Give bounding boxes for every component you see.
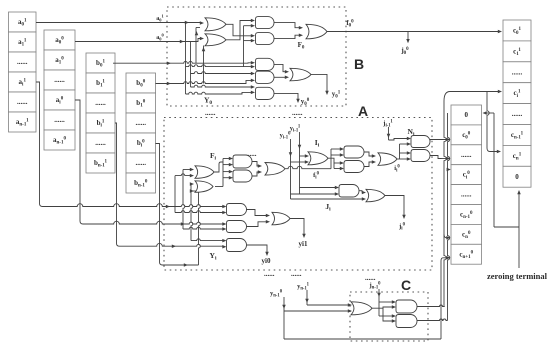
svg-text:......: ......	[54, 116, 65, 124]
riser r1 in A	[174, 176, 176, 213]
svg-text:......: ......	[205, 109, 216, 117]
riser from a_i^0 to bus2	[75, 100, 83, 224]
vertical vC3	[448, 113, 450, 321]
wire N2 out to ci^0	[430, 156, 442, 159]
svg-text:A: A	[358, 103, 368, 119]
feed OR-b.in1	[190, 183, 191, 185]
and-gate A N2	[411, 150, 430, 162]
B feed row AND4.in1	[191, 72, 252, 74]
bus3 horizontal	[120, 243, 167, 246]
and-gate C-AND1	[396, 300, 417, 313]
bus2 horizontal	[83, 221, 166, 224]
and-gate A ANDy1	[227, 204, 247, 216]
svg-text:......: ......	[512, 110, 523, 118]
B vertical a0^0 distribution	[190, 42, 192, 88]
and-gate B-AND4	[256, 71, 275, 83]
OR-I output to vertical 334	[328, 158, 334, 168]
wire y0^1 output	[311, 74, 327, 91]
register stack a1	[9, 12, 37, 32]
section box C	[350, 292, 428, 341]
and-gate A AND-j	[339, 185, 359, 198]
or-gate A OR-a	[195, 166, 214, 179]
B OR1 output crossover to AND2	[226, 24, 252, 36]
svg-text:yi1: yi1	[299, 240, 308, 248]
feed OR-a.in1	[183, 169, 190, 171]
feeds into OR-I	[300, 155, 306, 157]
register column c0 (result 0)	[451, 105, 482, 125]
OR-mi output to N gates	[397, 158, 400, 160]
section box B	[167, 7, 346, 106]
svg-text:......: ......	[136, 159, 147, 167]
feed ANDy1.in2	[175, 211, 223, 213]
svg-text:......: ......	[461, 191, 472, 199]
zeroing branch to second column 0 cell	[494, 226, 519, 228]
riser from b_i^0 to bus4	[156, 144, 163, 266]
B vertical b0^0 rise to OR2	[203, 46, 205, 84]
svg-text:yi0: yi0	[262, 257, 271, 265]
wire F0 output f0^0 to c0^1	[327, 31, 499, 33]
wire N1 out to c0^0	[430, 139, 447, 141]
vertical from bottom wire to c_n+1^0	[441, 258, 447, 339]
svg-text:......: ......	[512, 68, 523, 76]
and-gate A ANDy2	[227, 221, 247, 233]
riser r4 in A	[199, 191, 201, 265]
riser from b_i^1 to bus3	[115, 123, 120, 246]
C OR output distribution	[372, 307, 392, 308]
or-gate B-OR1	[205, 18, 226, 31]
or-gate A OR-y	[272, 212, 290, 225]
wire yi0 output from ANDy3	[247, 245, 268, 252]
and-gate A AND-m1	[344, 146, 364, 158]
m outputs to OR-mi	[364, 152, 372, 156]
or-gate F0	[306, 24, 327, 39]
wire to c_i^1 top	[444, 92, 498, 102]
svg-text:C: C	[401, 277, 411, 293]
svg-text:0: 0	[515, 173, 519, 181]
wire yi1 output	[290, 219, 304, 235]
bus4 bottom segment	[163, 264, 199, 266]
svg-text:......: ......	[264, 270, 275, 278]
bus1 horizontal	[43, 204, 167, 207]
feeds to AND-a AND-b	[223, 158, 229, 160]
A AND outputs to OR-c	[252, 162, 258, 167]
B OR2 output crossover to AND1	[226, 21, 252, 40]
feed ANDy3.in1	[191, 239, 223, 241]
and-gate C-AND2	[396, 315, 417, 328]
bottom long wire	[284, 338, 441, 340]
riser r2 in A	[183, 170, 185, 230]
feed OR-j.in2	[291, 198, 363, 200]
B AND outputs to F0	[274, 23, 299, 28]
j_{n-1}^0 wire into C	[378, 289, 380, 316]
register stack b1	[86, 53, 115, 73]
branch from f wire to c_n^1	[487, 92, 489, 149]
svg-text:......: ......	[95, 139, 106, 147]
and-gate B-AND1	[256, 17, 275, 29]
B AND3/AND4 outputs to Y0 OR	[274, 64, 285, 71]
wire b0^0 from stack to B	[156, 82, 245, 84]
register stack b0	[126, 73, 156, 93]
J cluster feeds	[300, 187, 336, 189]
wire j_i^0 output	[385, 196, 404, 216]
and-gate A AND-a	[233, 155, 252, 168]
A vertical feeder for mid ANDs	[222, 159, 224, 187]
register stack a0	[44, 30, 75, 50]
Y outputs to OR-y	[247, 210, 267, 216]
B vertical mid feed	[243, 26, 245, 67]
svg-text:......: ......	[95, 99, 106, 107]
AND-j output to OR-j	[359, 191, 362, 193]
and-gate B-AND3	[256, 58, 274, 70]
svg-text:0: 0	[465, 111, 469, 119]
OR-a output step to vertical feeder	[214, 162, 223, 172]
B vertical b0^1 rise to OR	[195, 28, 197, 64]
feed OR-b.in2	[190, 190, 199, 192]
stub j0^0	[407, 32, 409, 40]
svg-text:......: ......	[292, 109, 303, 117]
riser r3 in A	[191, 184, 193, 241]
y_{n-1}^0 wire to C	[283, 297, 285, 311]
wire b0^1 from stack to B	[113, 61, 246, 63]
svg-text:......: ......	[54, 76, 65, 84]
B vertical a0^1 distribution	[185, 23, 187, 95]
y_{n-1}^0 continues down to bottom wire	[283, 311, 285, 339]
svg-text:......: ......	[17, 58, 28, 66]
and-gate A ANDy3	[227, 239, 247, 252]
f_i wire from OR-c to I cluster	[285, 166, 331, 168]
long vertical vA	[444, 101, 446, 307]
C AND1 output wire	[417, 305, 445, 307]
zeroing terminal wire	[518, 191, 520, 268]
or-gate A OR-j	[366, 189, 385, 202]
or-gate C-OR	[351, 302, 372, 315]
svg-text:zeroing terminal: zeroing terminal	[487, 271, 548, 281]
feed ANDy2.in2	[183, 227, 223, 229]
B feed row AND5.in2	[186, 92, 241, 94]
or-gate B-ORY0	[290, 68, 311, 81]
or-gate A OR-b	[195, 181, 213, 193]
y_{n-1}^1 wire to C	[306, 290, 308, 305]
riser from a_i^1 to bus1	[36, 82, 43, 207]
svg-text:......: ......	[365, 274, 376, 282]
or-gate A OR-c	[265, 163, 285, 176]
svg-text:......: ......	[461, 151, 472, 159]
or-gate A OR-I	[308, 152, 328, 165]
and-gate A AND-m2	[344, 161, 364, 173]
section box A	[164, 118, 432, 271]
B feed row AND3.in2	[186, 65, 252, 67]
C AND2 output wire	[417, 319, 448, 321]
or-gate B-OR2	[205, 34, 226, 46]
svg-text:......: ......	[291, 270, 302, 278]
svg-text:B: B	[354, 56, 364, 72]
and-gate B-AND5	[256, 87, 274, 99]
register column c1 (result 1)	[503, 20, 531, 41]
and-gate B-AND2	[256, 33, 275, 45]
feed OR-a.in2	[175, 174, 190, 176]
wire y0^0 output from AND5	[274, 93, 298, 99]
svg-text:......: ......	[136, 119, 147, 127]
svg-text:......: ......	[17, 98, 28, 106]
branch to c_n^0	[444, 234, 447, 238]
I cluster feeds	[331, 148, 340, 150]
or-gate A OR-mi	[378, 153, 397, 166]
B feed row AND5.in1	[191, 85, 252, 87]
and-gate A AND-b	[233, 170, 252, 182]
and-gate A N1	[411, 136, 430, 148]
